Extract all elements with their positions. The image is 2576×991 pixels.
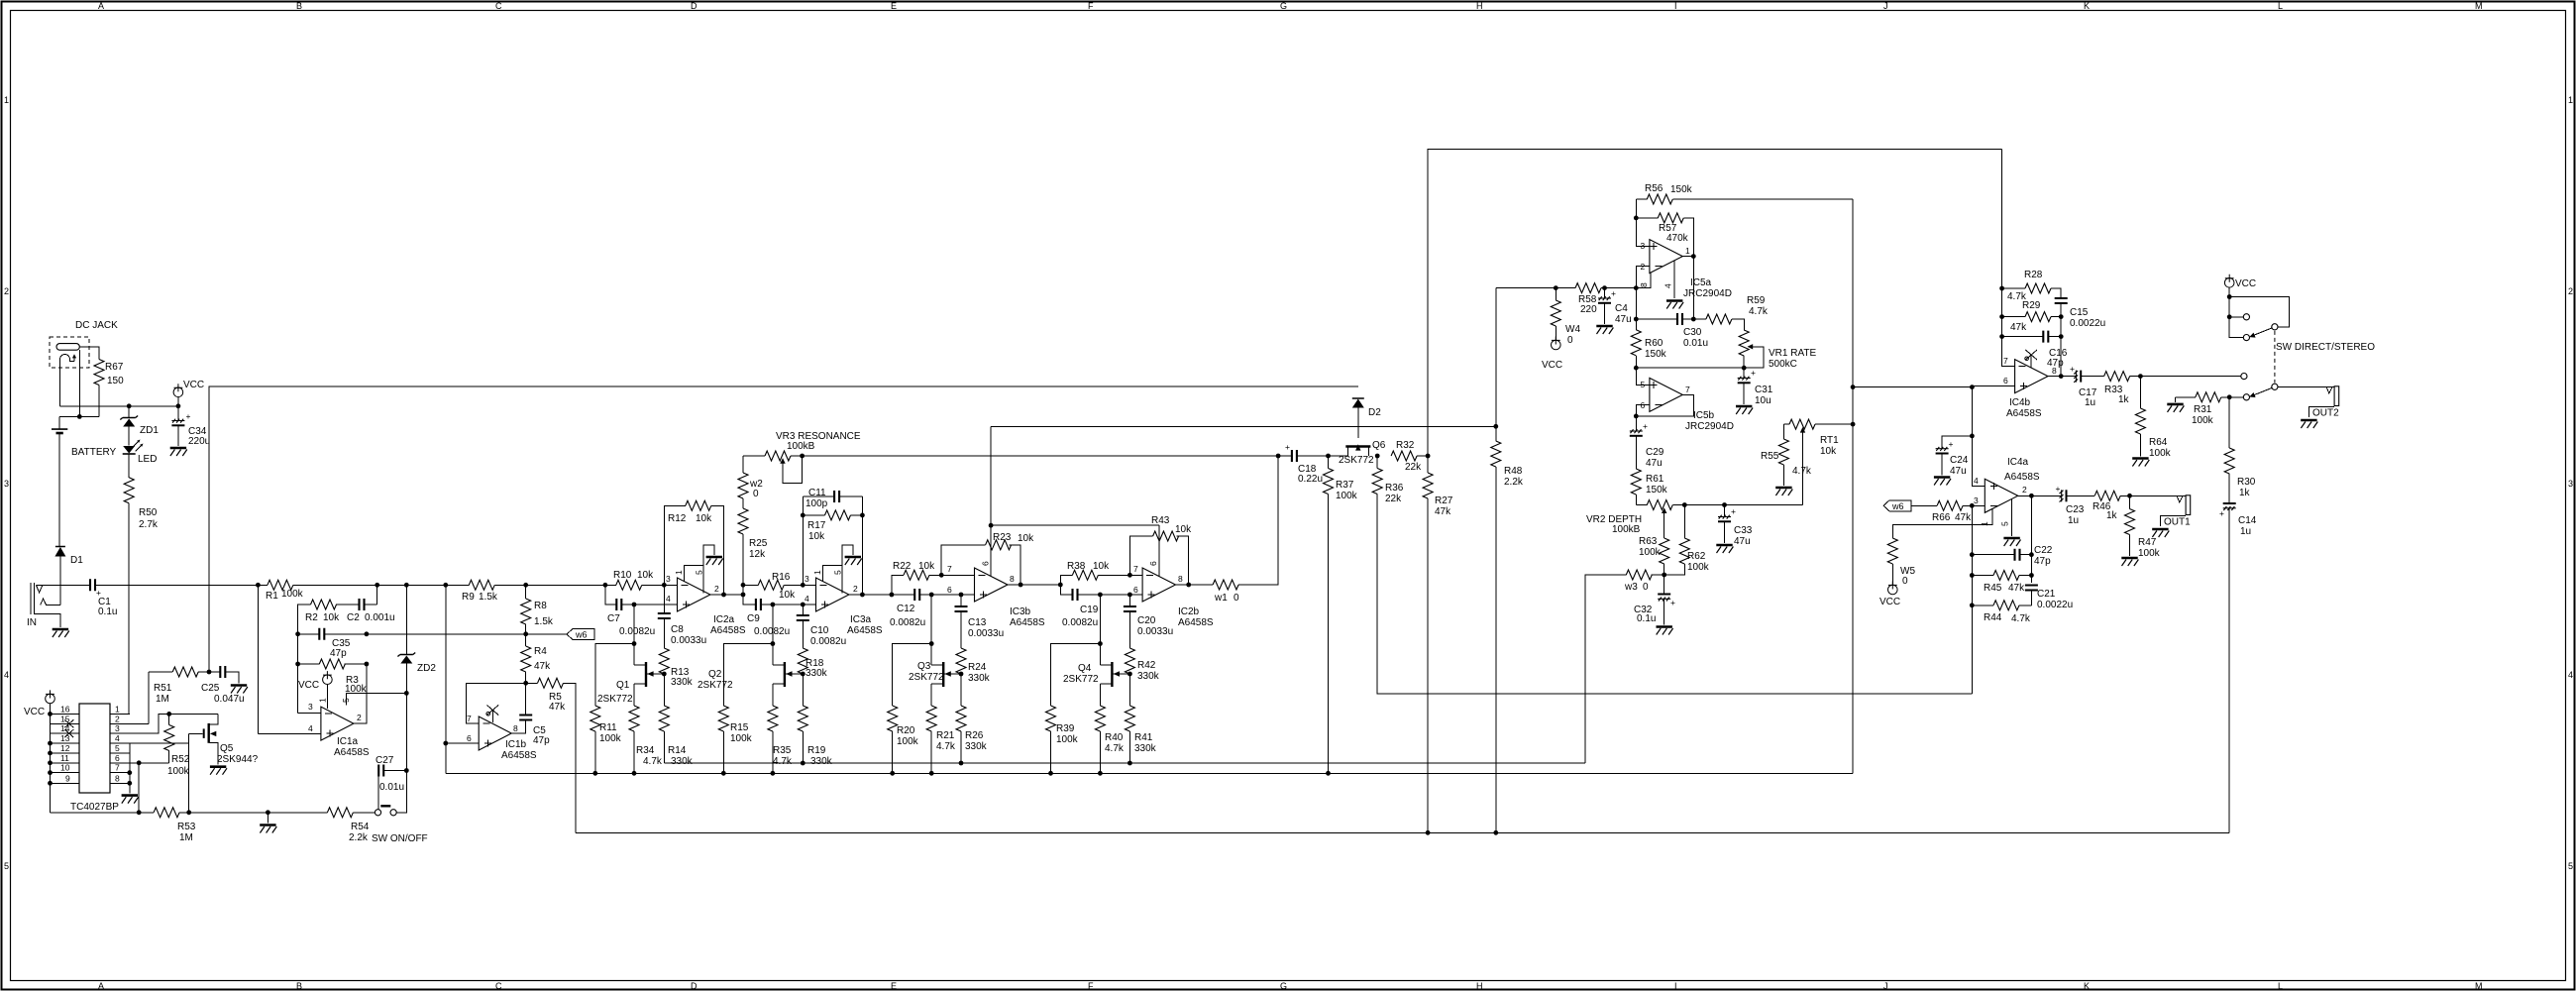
svg-text:w1: w1 bbox=[1214, 593, 1228, 604]
svg-text:4.7k: 4.7k bbox=[1749, 306, 1769, 317]
op-amp IC3a bbox=[816, 578, 849, 611]
svg-text:C8: C8 bbox=[671, 624, 684, 635]
op-amp IC2b bbox=[1142, 568, 1175, 602]
svg-text:4: 4 bbox=[115, 733, 120, 743]
capacitor C31 bbox=[1743, 368, 1745, 378]
capacitor C32 bbox=[1664, 575, 1665, 595]
capacitor C14 bbox=[2223, 503, 2236, 510]
svg-text:R9: R9 bbox=[462, 592, 475, 603]
svg-text:2: 2 bbox=[853, 584, 858, 594]
left pins 16..9 bbox=[51, 714, 80, 783]
svg-text:M: M bbox=[2475, 981, 2483, 991]
resistor R32 bbox=[1391, 451, 1417, 461]
svg-text:R14: R14 bbox=[668, 745, 687, 756]
svg-text:TC4027BP: TC4027BP bbox=[70, 802, 119, 813]
svg-text:2: 2 bbox=[115, 714, 120, 723]
capacitor C27 bbox=[378, 771, 406, 813]
svg-text:R43: R43 bbox=[1151, 515, 1170, 526]
resistor R66 bbox=[1911, 504, 1937, 506]
svg-text:3: 3 bbox=[1974, 495, 1979, 505]
svg-text:3: 3 bbox=[4, 479, 9, 489]
svg-text:R28: R28 bbox=[2024, 270, 2043, 280]
resistor R22 bbox=[892, 575, 904, 595]
svg-text:6: 6 bbox=[1148, 561, 1158, 566]
svg-text:R47: R47 bbox=[2138, 537, 2157, 548]
svg-text:C23: C23 bbox=[2066, 504, 2085, 515]
svg-text:R32: R32 bbox=[1396, 440, 1415, 451]
svg-text:4.7k: 4.7k bbox=[643, 756, 663, 767]
svg-text:0.0022u: 0.0022u bbox=[2070, 318, 2105, 329]
resistor R38 bbox=[1060, 575, 1072, 585]
svg-text:5: 5 bbox=[341, 698, 351, 703]
svg-text:A6458S: A6458S bbox=[1178, 617, 1214, 628]
svg-text:R23: R23 bbox=[993, 532, 1012, 543]
VR3 resonance pot bbox=[743, 455, 765, 457]
big right vertical bbox=[1852, 199, 1854, 773]
wire jack sleeve down bbox=[78, 350, 80, 416]
pot RT1 bbox=[1783, 423, 1789, 425]
svg-text:0.22u: 0.22u bbox=[1298, 474, 1323, 485]
pin1/5 stubs and ground stage1 bbox=[684, 545, 714, 594]
svg-text:W4: W4 bbox=[1565, 324, 1580, 335]
svg-text:2.7k: 2.7k bbox=[139, 519, 159, 530]
svg-text:0.0082u: 0.0082u bbox=[890, 617, 925, 628]
svg-text:2: 2 bbox=[4, 286, 9, 296]
resistor R16 bbox=[743, 584, 758, 586]
resistor R43 feedback bbox=[1129, 536, 1188, 585]
svg-text:4.7k: 4.7k bbox=[1105, 743, 1125, 754]
svg-text:2SK772: 2SK772 bbox=[1063, 674, 1099, 685]
svg-text:VCC: VCC bbox=[183, 380, 204, 390]
wire LFO drive line bbox=[576, 831, 2229, 833]
svg-text:7: 7 bbox=[467, 714, 472, 723]
zener ZD2 bbox=[404, 583, 409, 588]
transistor Q5 2SK944 bbox=[210, 714, 218, 764]
svg-text:Q3: Q3 bbox=[917, 661, 931, 672]
capacitor C13 bbox=[959, 593, 964, 598]
svg-text:Q5: Q5 bbox=[220, 743, 234, 754]
net tag w6 bbox=[567, 629, 594, 640]
resistor R5 bbox=[526, 682, 538, 684]
svg-text:A6458S: A6458S bbox=[2006, 408, 2042, 419]
svg-text:8: 8 bbox=[2052, 366, 2057, 376]
svg-text:0: 0 bbox=[753, 489, 759, 499]
svg-text:8: 8 bbox=[1010, 574, 1015, 584]
svg-text:1u: 1u bbox=[2068, 515, 2079, 526]
svg-text:0.01u: 0.01u bbox=[379, 782, 404, 793]
pin5 stub and ground IC4a bbox=[2011, 499, 2013, 536]
resistor R17 feedback bbox=[803, 496, 862, 595]
output IC4b bbox=[2048, 376, 2076, 378]
svg-text:C24: C24 bbox=[1950, 455, 1969, 466]
resistor w3 bbox=[1662, 573, 1666, 578]
resistor R12 feedback bbox=[664, 505, 723, 595]
right pins 1..8 bbox=[110, 714, 218, 783]
svg-text:100k: 100k bbox=[281, 589, 304, 600]
svg-text:Q1: Q1 bbox=[616, 680, 630, 691]
svg-text:4: 4 bbox=[1974, 476, 1979, 486]
transistor Q4 2SK772 bbox=[1100, 664, 1111, 666]
svg-text:IC3a: IC3a bbox=[850, 614, 872, 625]
resistor R60 bbox=[1631, 330, 1641, 356]
svg-text:2: 2 bbox=[714, 584, 719, 594]
svg-text:L: L bbox=[2278, 1, 2283, 11]
svg-text:R55: R55 bbox=[1761, 451, 1779, 462]
svg-text:R67: R67 bbox=[105, 362, 124, 373]
svg-text:7: 7 bbox=[2003, 356, 2008, 366]
svg-text:6: 6 bbox=[1133, 585, 1138, 595]
svg-text:6: 6 bbox=[115, 753, 120, 763]
svg-text:5: 5 bbox=[695, 570, 704, 575]
svg-text:w3: w3 bbox=[1624, 582, 1638, 593]
svg-text:G: G bbox=[1280, 981, 1287, 991]
resistor R8 bbox=[523, 583, 528, 588]
svg-text:330k: 330k bbox=[965, 741, 988, 752]
transistor Q2 2SK772 bbox=[773, 664, 784, 666]
svg-text:47k: 47k bbox=[1955, 512, 1972, 523]
wire Q5 gate down bbox=[188, 733, 190, 812]
op-amp IC4a bbox=[1985, 479, 2017, 512]
svg-text:330k: 330k bbox=[805, 668, 828, 679]
svg-text:C2: C2 bbox=[347, 612, 360, 623]
resistor R11 bbox=[595, 644, 634, 707]
wire top rail to R27 node bbox=[1428, 149, 2002, 456]
svg-text:K: K bbox=[2084, 1, 2090, 11]
svg-text:47u: 47u bbox=[1734, 536, 1751, 547]
svg-text:330k: 330k bbox=[1134, 743, 1157, 754]
svg-text:100k: 100k bbox=[599, 733, 622, 744]
svg-text:1: 1 bbox=[2568, 95, 2573, 105]
svg-text:0.0033u: 0.0033u bbox=[1137, 626, 1173, 637]
svg-text:47k: 47k bbox=[534, 661, 551, 672]
svg-text:47k: 47k bbox=[1435, 506, 1451, 517]
svg-text:8: 8 bbox=[513, 723, 518, 733]
svg-text:7: 7 bbox=[1133, 564, 1138, 574]
svg-text:OUT2: OUT2 bbox=[2312, 408, 2339, 419]
svg-text:6: 6 bbox=[981, 561, 991, 566]
svg-text:10u: 10u bbox=[1755, 395, 1771, 406]
VCC symbol bbox=[173, 384, 183, 396]
op-amp IC4b bbox=[2015, 360, 2048, 393]
svg-text:2SK772: 2SK772 bbox=[1339, 455, 1374, 466]
svg-text:47u: 47u bbox=[1950, 466, 1967, 477]
svg-text:1: 1 bbox=[1980, 521, 1989, 526]
resistor R34 bbox=[629, 706, 639, 731]
resistor R27 bbox=[1426, 454, 1431, 459]
svg-text:C12: C12 bbox=[897, 604, 915, 614]
svg-text:2: 2 bbox=[2568, 286, 2573, 296]
transistor Q3 2SK772 bbox=[931, 664, 942, 666]
dashed link bbox=[2274, 331, 2276, 383]
svg-text:1: 1 bbox=[318, 698, 328, 703]
svg-text:BATTERY: BATTERY bbox=[71, 447, 117, 458]
svg-text:150k: 150k bbox=[1670, 184, 1693, 195]
capacitor C5 bbox=[525, 683, 527, 715]
resistor R20 bbox=[893, 644, 932, 707]
capacitor C33 bbox=[1722, 502, 1727, 507]
svg-text:0: 0 bbox=[1567, 335, 1573, 346]
svg-text:Q6: Q6 bbox=[1372, 440, 1386, 451]
svg-text:R64: R64 bbox=[2149, 437, 2168, 448]
svg-text:0: 0 bbox=[1902, 576, 1908, 587]
svg-text:R20: R20 bbox=[897, 725, 915, 736]
svg-text:C20: C20 bbox=[1137, 615, 1156, 626]
svg-text:47p: 47p bbox=[533, 735, 550, 746]
svg-text:R24: R24 bbox=[968, 662, 987, 673]
output wire stage2 bbox=[849, 594, 914, 596]
svg-text:R66: R66 bbox=[1932, 512, 1951, 523]
wire main bottom bus bbox=[446, 772, 1853, 774]
zener ZD1 bbox=[128, 406, 130, 417]
resistor R9 bbox=[469, 580, 494, 590]
svg-text:E: E bbox=[891, 1, 897, 11]
resistor R53 bbox=[154, 808, 179, 818]
svg-text:10k: 10k bbox=[779, 590, 796, 601]
svg-text:R15: R15 bbox=[730, 722, 749, 733]
capacitor C23 bbox=[2060, 490, 2067, 501]
resistor R15 bbox=[723, 644, 773, 707]
svg-text:10k: 10k bbox=[637, 570, 654, 581]
pin6/pin7 unity loop bbox=[1636, 394, 1693, 416]
svg-text:15: 15 bbox=[60, 714, 70, 723]
svg-text:1k: 1k bbox=[2118, 394, 2130, 405]
pin1 stub to W5 bbox=[1892, 509, 1992, 539]
svg-text:47u: 47u bbox=[1646, 458, 1663, 469]
svg-text:0.0033u: 0.0033u bbox=[671, 635, 706, 646]
pot VR2 DEPTH bbox=[1636, 504, 1647, 506]
resistor R35 bbox=[768, 706, 778, 731]
svg-text:A6458S: A6458S bbox=[847, 625, 883, 636]
pin3 network vertical bbox=[1971, 505, 1973, 694]
svg-text:6: 6 bbox=[467, 733, 472, 743]
svg-text:R62: R62 bbox=[1687, 551, 1706, 562]
svg-text:R56: R56 bbox=[1645, 183, 1664, 194]
svg-text:22k: 22k bbox=[1385, 494, 1402, 504]
op-amp IC2a bbox=[678, 578, 710, 611]
jack IN bbox=[31, 583, 34, 614]
svg-text:IC1a: IC1a bbox=[337, 736, 359, 747]
node A stage1 bbox=[603, 583, 608, 588]
resistor w2 bbox=[742, 456, 744, 473]
svg-text:L: L bbox=[2278, 981, 2283, 991]
bottom line with R53 R54 bbox=[51, 812, 155, 814]
svg-text:JRC2904D: JRC2904D bbox=[1685, 421, 1734, 432]
svg-text:VCC: VCC bbox=[1542, 360, 1562, 371]
resistor R29 bbox=[2002, 316, 2025, 318]
net tag w6 right bbox=[1883, 500, 1911, 511]
capacitor C19 bbox=[1060, 585, 1072, 595]
wire VCC bus bbox=[60, 360, 178, 406]
svg-text:R48: R48 bbox=[1504, 466, 1523, 477]
capacitor C21 bbox=[2025, 586, 2038, 591]
resistor R64 bbox=[2138, 374, 2143, 379]
capacitor C16 bbox=[2002, 336, 2044, 338]
svg-text:R60: R60 bbox=[1645, 338, 1664, 349]
svg-text:R36: R36 bbox=[1385, 483, 1404, 494]
wire main input line bbox=[36, 584, 90, 586]
svg-text:Q2: Q2 bbox=[708, 669, 722, 680]
wire top rail down to feedback bbox=[2002, 149, 2015, 366]
switch lower pole bbox=[2241, 374, 2247, 380]
svg-text:4: 4 bbox=[666, 594, 671, 604]
resistor R39 bbox=[1051, 644, 1101, 707]
svg-text:100k: 100k bbox=[1336, 491, 1358, 501]
svg-text:R45: R45 bbox=[1984, 583, 2002, 594]
resistor R23 feedback bbox=[941, 545, 1020, 585]
capacitor C15 bbox=[2055, 298, 2068, 303]
svg-text:R61: R61 bbox=[1646, 474, 1664, 485]
svg-text:100k: 100k bbox=[1056, 734, 1079, 745]
svg-text:IC2a: IC2a bbox=[713, 614, 735, 625]
output wire stage1 bbox=[710, 594, 743, 596]
svg-text:R19: R19 bbox=[807, 745, 826, 756]
svg-text:VR1 RATE: VR1 RATE bbox=[1769, 348, 1816, 359]
svg-text:SW ON/OFF: SW ON/OFF bbox=[372, 833, 428, 844]
bias stub stage4 bbox=[1158, 525, 1160, 576]
svg-text:A6458S: A6458S bbox=[501, 750, 537, 761]
svg-text:J: J bbox=[1883, 1, 1888, 11]
svg-text:C7: C7 bbox=[607, 613, 620, 624]
node to IC1a pin4 bbox=[256, 583, 261, 588]
LED bbox=[123, 446, 135, 454]
resistor R51 bbox=[149, 672, 220, 723]
svg-text:5: 5 bbox=[4, 861, 9, 871]
op-amp IC5b bbox=[1650, 378, 1682, 411]
jack OUT1 bbox=[2177, 495, 2183, 502]
resistor R4 bbox=[525, 634, 527, 646]
svg-text:4: 4 bbox=[1664, 283, 1673, 288]
svg-text:2SK772: 2SK772 bbox=[597, 694, 633, 705]
svg-text:100p: 100p bbox=[805, 498, 828, 509]
svg-text:150k: 150k bbox=[1645, 349, 1667, 360]
svg-text:w6: w6 bbox=[575, 630, 588, 640]
svg-text:0.01u: 0.01u bbox=[1683, 338, 1708, 349]
svg-text:10: 10 bbox=[60, 763, 70, 773]
resistor R67 bbox=[94, 360, 104, 385]
svg-text:J: J bbox=[1883, 981, 1888, 991]
svg-text:DC JACK: DC JACK bbox=[75, 320, 118, 331]
svg-text:0.001u: 0.001u bbox=[365, 612, 395, 623]
svg-text:150k: 150k bbox=[1646, 485, 1668, 495]
svg-text:7: 7 bbox=[115, 763, 120, 773]
svg-text:47k: 47k bbox=[2008, 583, 2025, 594]
wire 330k rail bbox=[664, 762, 1585, 764]
svg-text:C13: C13 bbox=[968, 617, 987, 628]
svg-text:16: 16 bbox=[60, 704, 70, 714]
capacitor C29 bbox=[1635, 416, 1637, 431]
svg-text:1u: 1u bbox=[2085, 397, 2095, 408]
capacitor C34 bbox=[171, 419, 184, 426]
transistor Q6 2SK772 bbox=[1355, 444, 1360, 450]
svg-text:VCC: VCC bbox=[24, 707, 45, 717]
svg-text:I: I bbox=[1674, 981, 1677, 991]
svg-text:1.5k: 1.5k bbox=[534, 616, 554, 627]
pin2/pin8 loop bbox=[1636, 267, 1651, 288]
capacitor C2 bbox=[360, 599, 365, 610]
svg-text:0.0033u: 0.0033u bbox=[968, 628, 1004, 639]
svg-text:F: F bbox=[1088, 1, 1094, 11]
svg-text:10k: 10k bbox=[1018, 533, 1034, 544]
svg-text:C22: C22 bbox=[2034, 545, 2053, 556]
wire LFO mid node bbox=[1636, 367, 1744, 369]
svg-text:2SK772: 2SK772 bbox=[909, 672, 944, 683]
wire R2C2 branch bbox=[375, 583, 379, 588]
resistor R19 bbox=[802, 674, 804, 706]
svg-text:ZD1: ZD1 bbox=[140, 425, 159, 436]
svg-text:G: G bbox=[1280, 1, 1287, 11]
svg-text:500kC: 500kC bbox=[1769, 359, 1797, 370]
DC jack dashed box bbox=[50, 337, 89, 368]
resistor R57 bbox=[1636, 217, 1658, 219]
svg-text:R44: R44 bbox=[1984, 612, 2002, 623]
svg-text:1k: 1k bbox=[2239, 488, 2251, 498]
wire w6 line bbox=[367, 633, 567, 635]
svg-text:R63: R63 bbox=[1639, 536, 1658, 547]
svg-text:22k: 22k bbox=[1405, 462, 1422, 473]
svg-text:+: + bbox=[1949, 439, 1954, 449]
resistor R2 bbox=[311, 600, 337, 609]
wire osc out rail up and right to D2 bbox=[209, 386, 1358, 672]
svg-text:11: 11 bbox=[60, 753, 69, 763]
svg-text:C30: C30 bbox=[1683, 327, 1702, 338]
capacitor C25 bbox=[220, 666, 225, 678]
svg-text:R34: R34 bbox=[636, 745, 655, 756]
output wire bbox=[354, 664, 367, 723]
svg-text:IC3b: IC3b bbox=[1010, 606, 1031, 617]
svg-text:IC4a: IC4a bbox=[2007, 457, 2029, 468]
switch SW ON/OFF bbox=[375, 810, 380, 816]
svg-text:C: C bbox=[495, 981, 502, 991]
node battery line bbox=[59, 415, 99, 417]
resistor R63 bbox=[1660, 538, 1669, 564]
wire VR3 line to C18 bbox=[803, 455, 1279, 457]
svg-text:6: 6 bbox=[947, 585, 952, 595]
svg-text:R37: R37 bbox=[1336, 480, 1354, 491]
pin4 stub and ground IC5a bbox=[1673, 261, 1675, 298]
svg-text:H: H bbox=[1476, 981, 1483, 991]
pin7 feedback loop bbox=[466, 683, 525, 723]
op-amp IC5a bbox=[1650, 240, 1682, 274]
svg-text:10k: 10k bbox=[918, 561, 935, 572]
diode D1 bbox=[55, 546, 65, 548]
svg-text:A6458S: A6458S bbox=[2004, 472, 2040, 483]
svg-text:R1: R1 bbox=[266, 591, 278, 602]
svg-text:D: D bbox=[691, 981, 698, 991]
svg-text:100k: 100k bbox=[1639, 547, 1662, 558]
svg-text:IC2b: IC2b bbox=[1178, 606, 1200, 617]
capacitor C20 bbox=[1127, 593, 1132, 598]
svg-text:47k: 47k bbox=[549, 702, 566, 713]
svg-text:0.0082u: 0.0082u bbox=[1062, 617, 1098, 628]
svg-text:7: 7 bbox=[947, 564, 952, 574]
svg-text:I: I bbox=[1674, 1, 1677, 11]
svg-text:5: 5 bbox=[115, 743, 120, 753]
resistor R18 bbox=[798, 648, 807, 674]
svg-text:12k: 12k bbox=[749, 549, 766, 560]
resistor R45 bbox=[1972, 575, 1993, 577]
svg-text:220: 220 bbox=[1580, 304, 1597, 315]
DC jack center contact bbox=[60, 355, 75, 362]
svg-text:100k: 100k bbox=[167, 766, 190, 777]
capacitor C7 bbox=[605, 585, 616, 605]
svg-text:1: 1 bbox=[674, 570, 684, 575]
resistor R28 bbox=[2002, 287, 2025, 289]
resistor R50 bbox=[124, 478, 134, 503]
svg-text:R8: R8 bbox=[534, 601, 547, 611]
svg-text:3: 3 bbox=[805, 574, 809, 584]
svg-text:1u: 1u bbox=[2240, 526, 2251, 537]
resistor R1 bbox=[268, 580, 293, 590]
